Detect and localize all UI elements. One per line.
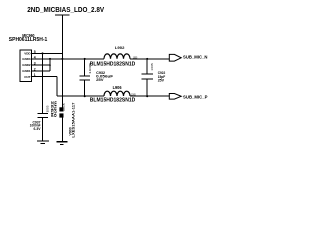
svg-text:3: 3 [34,62,36,66]
svg-text:25V: 25V [96,77,104,82]
svg-text:SUB_MIC_P: SUB_MIC_P [183,94,208,100]
svg-text:1005: 1005 [88,62,92,74]
svg-text:1005: 1005 [133,55,138,59]
svg-text:GND3: GND3 [22,57,31,61]
svg-text:OUT: OUT [24,75,31,79]
svg-text:25V: 25V [158,78,165,83]
svg-text:2: 2 [34,67,36,71]
svg-text:1005: 1005 [131,93,136,97]
svg-text:1: 1 [34,73,36,77]
svg-text:5: 5 [34,50,36,54]
svg-text:1005: 1005 [62,103,66,111]
svg-text:VDD: VDD [24,52,31,56]
svg-text:L902: L902 [115,45,125,50]
svg-text:SPH0611LR5H-1: SPH0611LR5H-1 [9,37,48,43]
svg-text:6.3V: 6.3V [34,127,42,131]
svg-text:GND1: GND1 [22,69,31,73]
svg-text:BLM15HD182SN1D: BLM15HD182SN1D [90,61,136,67]
svg-text:BLM15HD182SN1D: BLM15HD182SN1D [90,98,136,104]
svg-text:0ohm: 0ohm [53,101,57,117]
svg-text:LXES15AAA1-117: LXES15AAA1-117 [71,103,75,138]
svg-text:SUB_MIC_N: SUB_MIC_N [183,54,208,60]
svg-text:4: 4 [34,55,36,59]
svg-text:1005: 1005 [150,63,154,71]
svg-text:2ND_MICBIAS_LDO_2.8V: 2ND_MICBIAS_LDO_2.8V [27,7,104,14]
svg-text:GND2: GND2 [22,63,31,67]
svg-text:1005: 1005 [45,105,49,112]
svg-text:L906: L906 [113,85,122,90]
